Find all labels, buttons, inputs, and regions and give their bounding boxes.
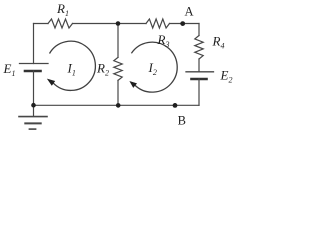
resistor R2: [114, 57, 122, 80]
wire top-right horizontal: [170, 23, 200, 25]
svg-text:E2: E2: [220, 68, 233, 85]
svg-text:E1: E1: [3, 61, 16, 78]
loop arrow I1: [48, 41, 96, 90]
wire top-middle: [73, 23, 147, 25]
node A dot: [180, 21, 185, 26]
node bottom-middle junction (R2 bottom): [116, 103, 121, 108]
svg-text:R2: R2: [96, 61, 109, 78]
node bottom-left junction: [31, 103, 36, 108]
wire middle branch upper: [117, 24, 119, 58]
wire left rail lower: [33, 71, 35, 116]
loop arrow I2: [130, 42, 177, 92]
svg-text:I1: I1: [67, 61, 76, 78]
resistor R1: [48, 19, 73, 28]
wire left rail upper: [33, 24, 35, 64]
battery E1: [20, 64, 49, 72]
svg-text:R1: R1: [56, 1, 69, 18]
ground: [19, 117, 47, 130]
battery E2: [186, 72, 214, 79]
wire bottom horizontal: [34, 104, 200, 106]
node junction top (R2 top): [116, 21, 121, 26]
wire right rail lower: [198, 79, 200, 105]
svg-text:R4: R4: [212, 34, 225, 51]
resistor R4: [195, 36, 203, 60]
wire right rail upper: [198, 24, 200, 36]
svg-text:I2: I2: [148, 60, 157, 77]
wire right rail middle: [198, 59, 200, 72]
svg-text:R3: R3: [157, 32, 170, 49]
node B dot: [173, 103, 178, 108]
svg-text:B: B: [178, 114, 186, 128]
resistor R3: [146, 19, 170, 28]
wire middle branch lower: [117, 80, 119, 105]
svg-text:A: A: [184, 4, 193, 18]
wire top-left horizontal: [34, 23, 49, 25]
